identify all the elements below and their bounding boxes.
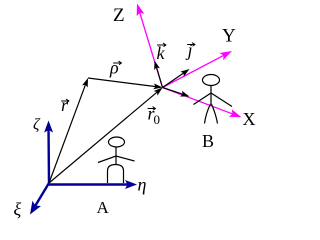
vector r [49,78,88,183]
unit vector k [154,61,162,88]
svg-text:η: η [138,175,147,195]
svg-text:ρ: ρ [109,58,119,78]
svg-text:j: j [186,40,193,60]
observer stick figure A [98,137,135,183]
axis xi (blue) of frame A [30,183,49,215]
svg-text:B: B [202,131,214,151]
vector r0 [49,88,163,184]
svg-text:Z: Z [113,5,125,26]
axis X (magenta) of frame B [163,88,242,118]
svg-text:X: X [243,109,256,129]
svg-text:r: r [61,95,69,115]
vector rho [88,78,163,89]
svg-text:ξ: ξ [14,199,22,219]
unit vector j [163,69,190,88]
svg-text:0: 0 [154,112,161,127]
observer stick figure B [194,75,233,124]
axis eta (blue) of frame A [49,180,137,189]
axis zeta (blue) of frame A [44,121,53,184]
unit vector i [163,88,190,97]
axis Y (magenta) of frame B [163,51,233,88]
axis Z (magenta) of frame B [137,4,163,88]
svg-text:A: A [97,198,110,217]
svg-text:Y: Y [222,26,236,47]
